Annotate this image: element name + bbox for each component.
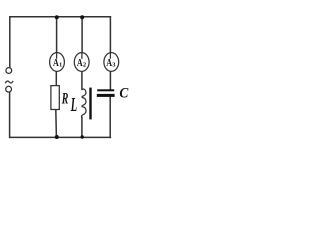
- svg-text:A: A: [53, 57, 59, 70]
- svg-text:L: L: [70, 95, 77, 116]
- svg-text:R: R: [61, 89, 68, 107]
- wire branch1 bottom: [55, 110, 58, 138]
- inductor L1 core bar: [89, 88, 91, 120]
- source AC terminal lower: [6, 86, 12, 92]
- wire right rail top: [109, 17, 111, 53]
- wire left rail lower: [9, 92, 11, 137]
- ammeter U2 A2: [74, 53, 89, 72]
- node J4 bottom branch2 junction dot: [81, 135, 84, 138]
- wire branch1 top: [56, 17, 58, 53]
- resistor R1 body: [51, 86, 59, 110]
- inductor L1 coil: [81, 89, 86, 117]
- svg-text:C: C: [119, 86, 129, 102]
- node J2 top branch2 junction dot: [80, 15, 84, 19]
- svg-text:2: 2: [83, 61, 86, 68]
- node J3 bottom branch1 junction dot: [55, 135, 59, 139]
- wire right rail bottom: [109, 96, 111, 137]
- wire branch1 mid: [55, 72, 57, 86]
- wire right rail mid: [109, 72, 111, 90]
- svg-text:A: A: [77, 57, 83, 70]
- wire branch2 bottom: [81, 117, 83, 137]
- capacitor C1 top plate: [97, 89, 114, 91]
- wire bottom bus: [10, 136, 111, 138]
- svg-text:1: 1: [59, 61, 62, 68]
- capacitor C1 bottom plate: [97, 94, 115, 97]
- node J1 top branch1 junction dot: [55, 15, 59, 19]
- wire branch2 top: [81, 17, 83, 53]
- ammeter U3 A3: [104, 53, 119, 72]
- wire top bus: [10, 16, 111, 18]
- wire left rail upper: [9, 17, 11, 68]
- source AC terminal upper: [6, 68, 12, 74]
- source AC tilde: [5, 81, 13, 83]
- wire branch2 mid: [81, 72, 83, 90]
- ammeter U1 A1: [50, 53, 65, 72]
